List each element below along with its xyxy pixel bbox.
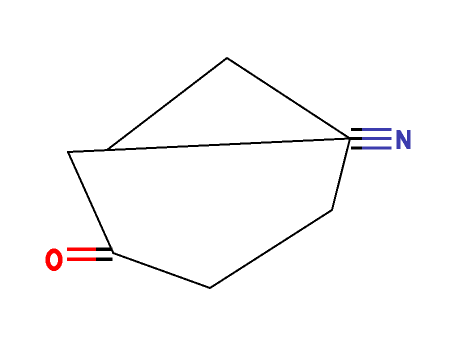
node: nitrogen atom label N (blue) [399, 130, 409, 149]
wire: bond V1-K (left lower bond to carbonyl carbon) [68, 152, 113, 253]
C#N triple bond, blue half near nitrogen [362, 130, 392, 148]
wire: straight middle-bridge bond V1-E2 [68, 139, 350, 153]
wire: bond G-E2 (short steep right bond) [332, 139, 350, 211]
wire: bond K-F (bottom left bond) [113, 253, 210, 288]
C=O double bond, black half near carbon K [96, 249, 113, 259]
node: oxygen atom label O (red) [48, 251, 61, 269]
wire: bond F-G (bottom right ascending bond) [210, 210, 332, 288]
C=O double bond, red half near oxygen [67, 249, 96, 259]
wire: bond W-B (left upper slope of top bridge) [107, 58, 227, 150]
wire: bond B-E2 (right upper slope of top bridge) [227, 58, 350, 139]
C#N triple bond, black half near carbon E2 [349, 130, 362, 148]
